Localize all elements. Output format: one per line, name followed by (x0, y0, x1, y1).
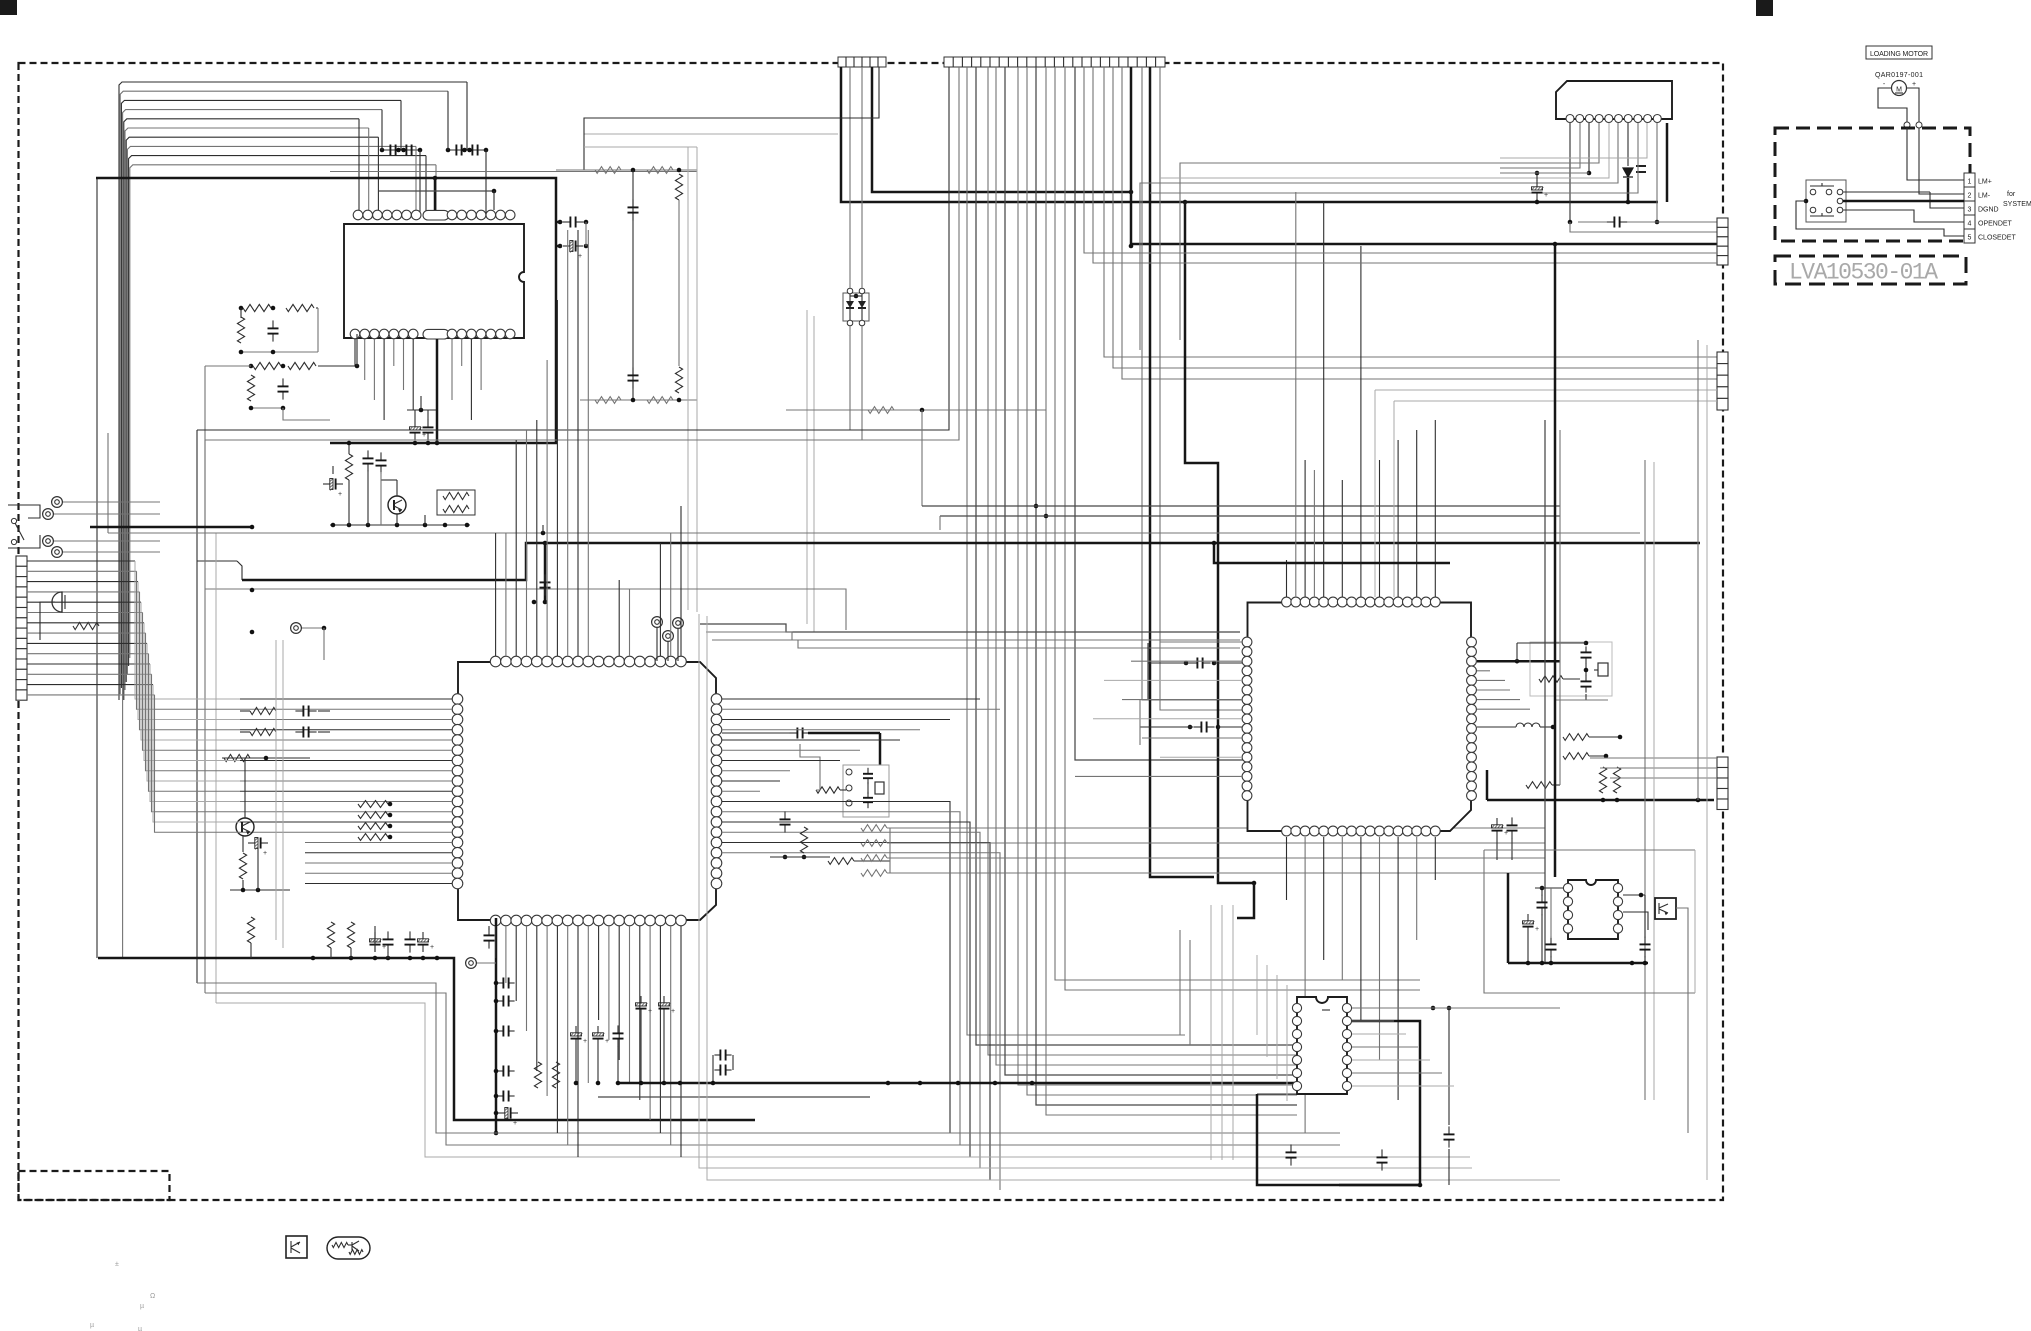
junction (1252, 881, 1257, 886)
wire (197, 67, 949, 430)
electrolytic capacitor CE12 (1496, 818, 1498, 825)
wire (197, 983, 1340, 1133)
wire (240, 811, 452, 813)
junction (355, 364, 360, 369)
wire (1160, 123, 1609, 178)
wire (806, 310, 808, 624)
resistor R15 (647, 397, 673, 404)
wire (27, 601, 141, 603)
wire (1517, 642, 1586, 644)
wire (381, 479, 397, 481)
wire (680, 506, 682, 656)
wire (1644, 895, 1646, 938)
wire (1666, 123, 1669, 202)
wire (448, 149, 467, 151)
junction (446, 148, 451, 153)
wire (659, 543, 661, 656)
svg-text:LOADING MOTOR: LOADING MOTOR (1870, 51, 1928, 58)
resistor R36 (552, 1062, 559, 1088)
wire (240, 708, 452, 710)
decoder IC3 (1248, 603, 1472, 832)
svg-text:OPENDET: OPENDET (1978, 221, 2013, 228)
capacitor C35 (1448, 1126, 1450, 1134)
resistor R24 (239, 853, 246, 879)
wire (204, 366, 206, 540)
wire (96, 178, 556, 443)
junction (574, 1081, 579, 1086)
wire (403, 339, 405, 390)
wire (1843, 191, 1930, 193)
wire (861, 308, 863, 320)
wire (861, 67, 863, 288)
inductor L1 (1516, 723, 1540, 727)
wire (205, 67, 959, 440)
wire (1155, 57, 1157, 67)
junction (956, 1081, 961, 1086)
wire (1007, 57, 1009, 67)
wire (1286, 560, 1288, 597)
wire (1895, 92, 1903, 94)
junction (1540, 886, 1545, 891)
wire (356, 334, 358, 366)
test point TP1 (652, 617, 663, 628)
electrolytic capacitor CE9 (597, 1026, 599, 1033)
wire (879, 733, 882, 765)
capacitor C13 (867, 768, 869, 774)
wire (330, 524, 470, 526)
wire (952, 57, 954, 67)
wire (485, 150, 487, 215)
svg-text:+: + (605, 1038, 609, 1045)
wire (1484, 849, 1695, 851)
wire (1360, 246, 1362, 597)
junction (1587, 171, 1592, 176)
wire (197, 560, 237, 562)
LOADING MOTOR label (1866, 46, 1932, 59)
resistor R6 (247, 375, 254, 401)
wire (1150, 67, 1214, 877)
wire (536, 926, 538, 1071)
junction (386, 956, 391, 961)
wire (988, 67, 1297, 1055)
wire (515, 440, 517, 656)
wire (1341, 837, 1343, 980)
wire (1322, 1009, 1330, 1011)
wire (1093, 67, 1717, 263)
wire (205, 993, 1340, 1145)
junction (1655, 220, 1660, 225)
wire (861, 294, 863, 301)
wire (240, 749, 452, 751)
capacitor C17 (497, 982, 503, 984)
wire (670, 533, 672, 656)
junction (1553, 242, 1558, 247)
wire (617, 1046, 619, 1083)
wire (125, 128, 369, 690)
wire (1585, 663, 1587, 676)
wire (467, 149, 486, 151)
junction (408, 956, 413, 961)
wire (323, 628, 325, 660)
wire (849, 294, 851, 301)
label box LVA10530-01A (1775, 256, 1966, 284)
title block dashed box bottom-left (19, 1171, 170, 1200)
junction (418, 148, 423, 153)
wire (887, 857, 1545, 859)
junction (421, 956, 426, 961)
test point TP6 (52, 497, 63, 508)
wire (395, 145, 397, 156)
wire (1477, 670, 1490, 672)
wire (1104, 67, 1717, 357)
edge connector right A (1717, 218, 1728, 227)
wire (130, 165, 436, 658)
dual diode D1 (843, 293, 869, 321)
resistor R35 (534, 1062, 541, 1088)
junction (677, 398, 682, 403)
wire (1084, 252, 1717, 254)
junction (494, 999, 499, 1004)
wire (1065, 67, 1420, 990)
wire (639, 926, 641, 1100)
resistor R31 (861, 870, 887, 877)
wire (1352, 1007, 1560, 1009)
wire (687, 147, 689, 610)
wire (495, 926, 497, 958)
capacitor C29 (1585, 646, 1587, 652)
wire (712, 1055, 714, 1083)
wire (1796, 201, 1964, 236)
capacitor C32 (1290, 1144, 1292, 1152)
wire (861, 57, 863, 67)
wire (242, 836, 244, 852)
wire (147, 643, 240, 781)
wire (305, 852, 452, 854)
junction (541, 531, 546, 536)
wire (670, 926, 672, 1145)
junction (678, 1081, 683, 1086)
junction (467, 148, 472, 153)
wire (629, 589, 631, 656)
wire (1099, 57, 1101, 67)
wire (1540, 726, 1553, 728)
junction (1549, 961, 1554, 966)
junction (631, 398, 636, 403)
wire (1434, 837, 1436, 880)
wire (1379, 837, 1381, 1060)
wire (1541, 888, 1543, 896)
wire (354, 339, 356, 366)
wire (967, 67, 1185, 1035)
junction (433, 176, 438, 181)
wire (1644, 460, 1646, 1100)
wire (712, 640, 1240, 648)
edge connector left CN2 (16, 556, 27, 566)
junction (1515, 659, 1520, 664)
wire (1636, 165, 1646, 167)
wire (1150, 123, 1638, 193)
junction (443, 523, 448, 528)
junction (584, 244, 589, 249)
svg-text:LM-: LM- (1978, 193, 1991, 200)
capacitor C27 (1189, 662, 1197, 664)
wire (722, 843, 990, 1181)
wire (27, 612, 143, 614)
capacitor C38 (1644, 936, 1646, 944)
wire (244, 758, 246, 770)
wire (155, 695, 241, 832)
wire (1843, 200, 1964, 203)
junction (1618, 735, 1623, 740)
svg-text:+: + (671, 1008, 675, 1015)
wire (505, 926, 507, 983)
wire (240, 719, 452, 721)
wire (27, 591, 140, 593)
junction (596, 1081, 601, 1086)
wire (598, 1096, 870, 1098)
wire (1552, 784, 1560, 786)
electrolytic capacitor CE5 (498, 1112, 505, 1114)
resistor R43 (73, 622, 99, 629)
junction (419, 408, 424, 413)
junction (639, 1081, 644, 1086)
wire (377, 137, 379, 215)
junction (395, 523, 400, 528)
junction (347, 441, 352, 446)
resistor R26 (800, 827, 807, 853)
wire (1276, 975, 1278, 1079)
wire (396, 514, 398, 525)
wire (1139, 700, 1141, 745)
wire (1653, 462, 1655, 1100)
wire (1093, 262, 1717, 264)
capacitor C15 (784, 811, 786, 819)
wire (584, 67, 879, 134)
wire (495, 533, 497, 656)
wire (1210, 905, 1212, 1160)
junction (532, 600, 537, 605)
wire (144, 623, 240, 761)
wire (840, 789, 846, 791)
wire (451, 339, 453, 400)
wire (1221, 905, 1223, 1160)
wire (770, 856, 830, 858)
resistor R45 (349, 1250, 363, 1255)
wire (585, 222, 587, 246)
wire (567, 926, 569, 1145)
svg-text:+: + (1912, 81, 1916, 88)
wire (887, 872, 1545, 874)
wire (887, 842, 1545, 844)
wire (580, 399, 697, 401)
wire (1541, 914, 1543, 963)
wire (1109, 57, 1111, 67)
wire (436, 339, 439, 443)
wire (1341, 480, 1343, 597)
wire (63, 501, 160, 503)
resistor R41 (1599, 767, 1606, 793)
wire (108, 532, 1640, 534)
wire (242, 543, 1700, 580)
wire (291, 1242, 300, 1247)
wire (137, 571, 241, 709)
wire (841, 67, 1185, 202)
wire (96, 178, 98, 958)
wire (850, 295, 862, 297)
junction (388, 813, 393, 818)
wire (120, 91, 448, 694)
wire (663, 1016, 665, 1083)
wire (846, 307, 854, 309)
junction (241, 888, 246, 893)
junction (1535, 171, 1540, 176)
wire (1214, 543, 1450, 563)
capacitor C30 (1585, 675, 1587, 681)
resistor R9 (443, 505, 469, 512)
wire (678, 200, 680, 366)
wire (1127, 57, 1129, 67)
wire (998, 57, 1000, 67)
resistor R30 (861, 855, 887, 862)
wire (1323, 837, 1325, 960)
sub-board dashed box (1775, 128, 1970, 241)
resistor R29 (861, 840, 887, 847)
resistor R2 (286, 304, 314, 311)
wire (54, 513, 160, 515)
wire (677, 629, 679, 661)
resistor R19 (358, 801, 388, 808)
wire (1511, 838, 1513, 860)
junction (494, 1069, 499, 1074)
svg-text:CLOSEDET: CLOSEDET (1978, 235, 2016, 242)
wire (495, 918, 498, 1133)
wire (240, 731, 250, 733)
svg-text:+: + (430, 944, 434, 951)
wire (1578, 221, 1607, 223)
junction (1216, 725, 1221, 730)
fiducial mark top-left (0, 0, 17, 15)
wire (1131, 660, 1242, 662)
wire (556, 169, 697, 171)
wire (240, 710, 250, 712)
wire (1160, 641, 1242, 643)
resistor R39 (1563, 753, 1589, 760)
capacitor C14 (867, 792, 869, 798)
resistor R25 (816, 787, 840, 793)
svg-text:for: for (2007, 191, 2016, 198)
wire (1005, 67, 1297, 1075)
junction (1615, 798, 1620, 803)
wire (149, 654, 241, 792)
wire (27, 622, 144, 624)
wire (556, 221, 562, 224)
wire (290, 1241, 292, 1253)
wire (556, 300, 558, 656)
junction (1626, 200, 1631, 205)
wire (1148, 662, 1190, 664)
wire (1477, 689, 1510, 691)
wire (124, 119, 359, 700)
wire (1589, 736, 1620, 738)
wire (1140, 726, 1193, 728)
wire (722, 739, 900, 741)
wire (240, 821, 452, 823)
capacitor C2 (282, 378, 284, 386)
wire (389, 145, 391, 156)
wire (424, 515, 426, 525)
legend transistor box (286, 1236, 307, 1258)
svg-text:1: 1 (1968, 179, 1972, 186)
wire (1448, 1008, 1450, 1125)
resistor R10 (595, 167, 621, 174)
wire (1140, 123, 1618, 350)
wire (412, 339, 414, 410)
junction (918, 1081, 923, 1086)
wire (1179, 930, 1181, 1035)
wire (222, 757, 310, 759)
wire (1563, 678, 1580, 680)
svg-text:LM+: LM+ (1978, 179, 1992, 186)
wire (318, 731, 330, 733)
junction (239, 306, 244, 311)
resistor R8 (443, 492, 469, 499)
wire (477, 145, 479, 156)
junction (494, 1029, 499, 1034)
wire (1821, 213, 1823, 216)
wire (1589, 755, 1606, 757)
svg-text:4: 4 (1968, 221, 1972, 228)
junction (281, 364, 286, 369)
edge connector right C (1717, 757, 1728, 768)
wire (1919, 128, 1964, 194)
wire (1907, 128, 1964, 180)
wire (706, 632, 1240, 640)
board-edge connector strip CN-top-2 (944, 57, 1165, 67)
transistor Q1 (388, 496, 406, 514)
test point TP2 (673, 618, 684, 629)
legend oval resistor-transistor (327, 1237, 370, 1259)
wire (282, 640, 284, 948)
wire (722, 853, 1000, 1190)
wire (1375, 389, 1717, 391)
wire (1081, 57, 1083, 67)
junction (366, 523, 371, 528)
wire (1477, 660, 1560, 663)
svg-text:±: ± (115, 1261, 119, 1268)
wire (996, 67, 1297, 1065)
wire (27, 560, 135, 562)
resistor R21 (358, 823, 388, 830)
wire (1536, 173, 1538, 181)
wire (119, 82, 467, 700)
wire (584, 133, 838, 135)
wire (1585, 694, 1587, 700)
wire (98, 958, 755, 1120)
junction (1044, 514, 1049, 519)
wire (1084, 67, 1717, 253)
wire (150, 664, 240, 802)
wire (1550, 956, 1552, 963)
electrolytic capacitor CE7 (422, 932, 424, 939)
main board dashed border (19, 63, 1724, 1200)
wire (1500, 123, 1647, 158)
test point TP4 (291, 623, 302, 634)
resistor R27 (828, 858, 854, 865)
wire (649, 926, 651, 1120)
wire (1393, 401, 1395, 597)
junction (388, 824, 393, 829)
wire (317, 308, 319, 352)
